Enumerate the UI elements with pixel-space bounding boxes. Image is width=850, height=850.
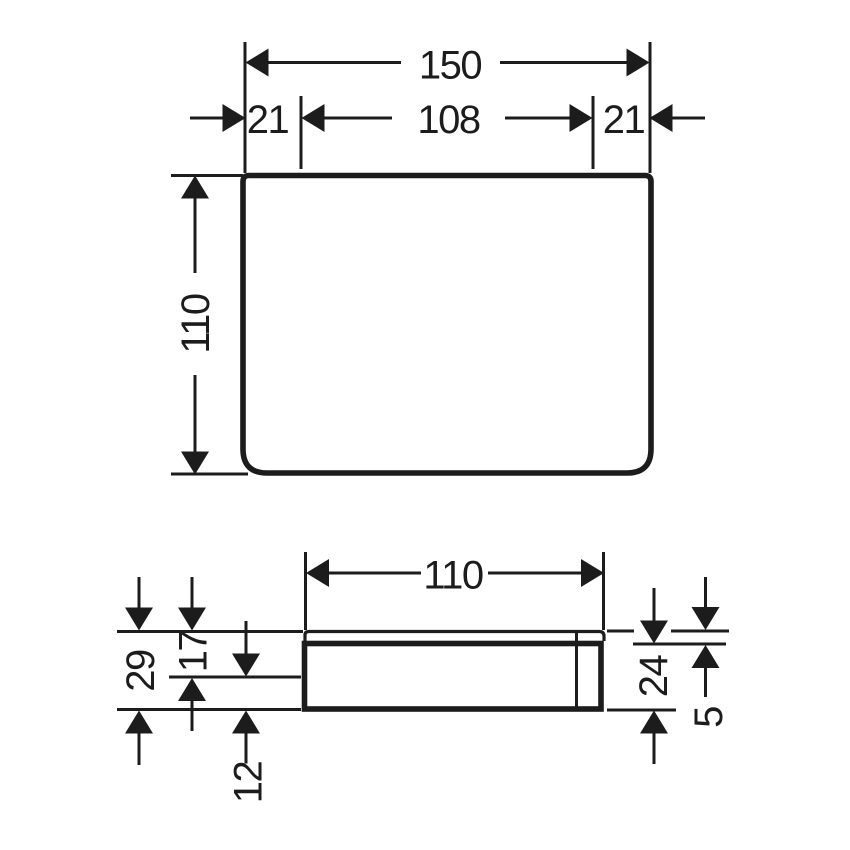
extension line y=631 right of body (right segment) <box>671 630 729 633</box>
svg-text:24: 24 <box>632 655 676 698</box>
extension line y=631 right of body (left segment) <box>607 630 634 633</box>
dimension 29 column: lower line <box>138 733 141 765</box>
arrowhead 5 bottom <box>692 645 720 668</box>
svg-text:110: 110 <box>174 294 218 354</box>
arrowhead 5 top <box>692 607 720 630</box>
arrowhead 150 left <box>246 49 269 77</box>
svg-text:21: 21 <box>603 98 645 142</box>
extension line: top view left (x=245) <box>244 42 247 173</box>
arrowhead 110side right <box>581 559 604 587</box>
dimension 110 (top view): lower segment <box>194 375 197 452</box>
extension line y=677 left of body <box>169 676 301 679</box>
arrowhead 24 top <box>640 621 668 644</box>
extension line: top view inner-left (x=301) <box>300 96 303 169</box>
dimension line 108 right segment <box>505 117 570 120</box>
arrowhead 110side left <box>306 559 329 587</box>
extension line y=710 right of body <box>607 709 676 712</box>
dimension 24 column: lower line <box>653 733 656 764</box>
dimension line 108 left segment <box>325 117 393 120</box>
dimension 29 column: upper line <box>138 577 141 609</box>
dimension 5 column: lower line <box>704 668 707 698</box>
extension line: top view top-left horizontal (110 dim, y=175) <box>171 174 243 177</box>
extension line: top view inner-right (x=593) <box>592 96 595 169</box>
arrowhead 24 bottom <box>640 711 668 734</box>
extension line y=631 left of body <box>117 630 303 633</box>
extension line: top view bottom-left horizontal (110 dim, y=474) <box>171 473 248 476</box>
arrowhead 29 top <box>125 608 153 631</box>
arrowhead 17 top <box>178 608 206 631</box>
dimension 110 (top view): upper segment <box>194 199 197 274</box>
extension line: side view left (x=305.5) <box>304 552 307 630</box>
svg-text:5: 5 <box>687 707 731 728</box>
arrowhead 150 right <box>627 49 650 77</box>
dimension 12 column: lower line <box>245 733 248 764</box>
dimension 17 column: lower line <box>191 701 194 732</box>
arrowhead 108 right <box>570 104 593 132</box>
dimension row 21/108/21: left outside leader <box>190 117 245 120</box>
svg-text:150: 150 <box>419 44 481 88</box>
dimension line 150 <box>267 61 401 64</box>
dimension line 110 (side view) <box>328 572 421 575</box>
dimension row: right outside leader <box>650 117 705 120</box>
svg-text:17: 17 <box>172 631 216 673</box>
side view: glass plate top <box>305 632 604 643</box>
arrowhead 29 bottom <box>125 711 153 734</box>
arrowhead 110 top <box>181 176 209 199</box>
extension line: top view right (x=650) <box>649 42 652 173</box>
dimension 17 column: upper line <box>191 577 194 609</box>
extension line y=644 right of body <box>633 643 726 646</box>
svg-text:29: 29 <box>119 650 163 692</box>
svg-text:21: 21 <box>247 98 289 142</box>
dimension 12 column: upper line <box>245 621 248 655</box>
side view: inner bracket line <box>575 633 578 707</box>
dimension 5 column: upper line <box>704 577 707 608</box>
dimension 24 column: upper line <box>653 588 656 622</box>
extension line y=710.5 left of body <box>117 708 301 711</box>
top view: shelf outline <box>243 176 651 474</box>
arrowhead 110 bottom <box>181 452 209 475</box>
svg-text:108: 108 <box>417 98 479 142</box>
arrowhead 108 left <box>302 104 325 132</box>
side view: shelf body outline <box>305 644 602 710</box>
extension line: side view right (x=603.5) <box>602 552 605 630</box>
arrowhead 12 top <box>232 654 260 677</box>
arrowhead 12 bottom <box>232 711 260 734</box>
svg-text:12: 12 <box>227 762 271 804</box>
svg-text:110: 110 <box>423 554 483 598</box>
arrowhead 21-right outside <box>650 104 673 132</box>
arrowhead 17 bottom <box>178 678 206 701</box>
arrowhead 21-left outside <box>223 104 246 132</box>
